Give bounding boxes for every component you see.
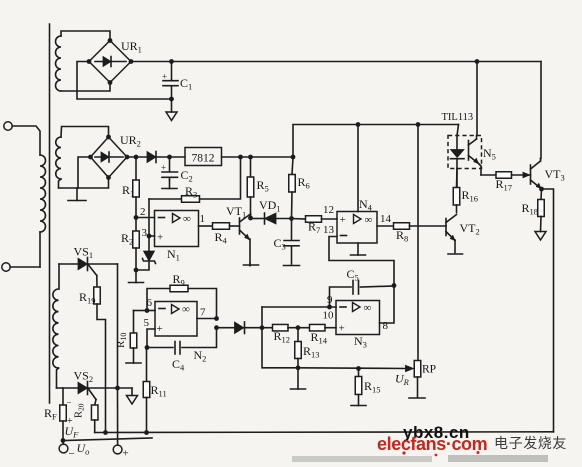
svg-text:UR2: UR2 bbox=[120, 133, 141, 149]
wire R19 to bottom rail bbox=[97, 304, 106, 433]
svg-text:RP: RP bbox=[422, 364, 436, 376]
wire N4 out bbox=[377, 225, 394, 227]
svg-text:R18: R18 bbox=[522, 201, 539, 217]
svg-text:R6: R6 bbox=[298, 175, 310, 191]
svg-text:N5: N5 bbox=[483, 146, 496, 162]
wire N1 out to R4 bbox=[199, 225, 213, 227]
svg-text:3: 3 bbox=[142, 227, 148, 239]
wire UR1 minus output bbox=[77, 62, 172, 100]
svg-text:N3: N3 bbox=[354, 334, 367, 350]
node VD1 R7 C3 bbox=[289, 216, 294, 221]
resistor R8 bbox=[394, 223, 410, 230]
svg-text:8: 8 bbox=[383, 320, 389, 332]
svg-text:C5: C5 bbox=[347, 267, 359, 283]
ground below VT1 bbox=[249, 264, 251, 266]
wire emitter to R17 bbox=[481, 174, 496, 176]
node R1 top bbox=[134, 155, 139, 160]
svg-text:R13: R13 bbox=[303, 344, 320, 360]
input terminal 2 bbox=[2, 263, 10, 271]
capacitor C5 bbox=[352, 281, 354, 295]
svg-text:+: + bbox=[339, 323, 345, 335]
winding W1 bottom wire bbox=[61, 83, 110, 92]
diode VD1 (cathode left) bbox=[251, 218, 264, 220]
wire R7 to N4 pin12 bbox=[322, 218, 338, 220]
svg-text:R9: R9 bbox=[173, 272, 185, 288]
svg-text:VD1: VD1 bbox=[259, 198, 281, 214]
wire VS2 node to plus terminal bbox=[117, 388, 119, 445]
svg-text:14: 14 bbox=[380, 213, 392, 225]
ground below R2 bbox=[135, 270, 137, 283]
ground below VT2 bbox=[448, 253, 463, 255]
wire C4 row right bbox=[182, 328, 217, 348]
resistor RF sense bbox=[62, 388, 64, 405]
svg-text:R2: R2 bbox=[121, 231, 133, 247]
ground below R15 bbox=[358, 395, 360, 406]
optocoupler phototransistor bbox=[468, 141, 470, 161]
resistor R18 bbox=[540, 189, 543, 200]
svg-text:R17: R17 bbox=[496, 177, 513, 193]
svg-text:VT2: VT2 bbox=[460, 221, 480, 237]
ground below UR2 bbox=[76, 188, 78, 201]
watermark red speckles bbox=[402, 451, 405, 454]
svg-text:R4: R4 bbox=[215, 230, 228, 246]
svg-text:TIL113: TIL113 bbox=[442, 112, 474, 123]
transistor VT3 bbox=[530, 165, 532, 184]
ground below N4 bbox=[357, 243, 359, 255]
node output minus bbox=[61, 438, 66, 443]
node RP rail bbox=[416, 122, 421, 127]
node R5 top bbox=[248, 155, 253, 160]
svg-text:∞: ∞ bbox=[364, 302, 372, 314]
wire C5 right leg bbox=[361, 286, 395, 287]
node C5 N3out pin13 bbox=[392, 283, 397, 288]
output terminal plus bbox=[113, 445, 122, 454]
bottom rail bbox=[95, 431, 554, 434]
wire VS1 down to VS2 node bbox=[117, 264, 119, 388]
ground below C1 bbox=[166, 112, 177, 121]
transistor VT1 bbox=[239, 218, 241, 234]
node R15 top bbox=[356, 366, 361, 371]
svg-text:12: 12 bbox=[323, 204, 334, 216]
svg-text:5: 5 bbox=[144, 317, 150, 329]
node R19 rail bbox=[103, 430, 108, 435]
bridge rectifier UR1 bbox=[89, 41, 131, 83]
svg-text:∞: ∞ bbox=[183, 213, 191, 225]
svg-text:UR1: UR1 bbox=[121, 39, 142, 55]
wire N2 out bbox=[197, 318, 217, 320]
svg-text:R11: R11 bbox=[151, 383, 167, 399]
svg-text:RF: RF bbox=[44, 406, 57, 422]
svg-text:N1: N1 bbox=[167, 247, 180, 263]
svg-text:13: 13 bbox=[323, 224, 335, 236]
wire rail into optocoupler bbox=[457, 125, 459, 136]
capacitor C1 bbox=[163, 80, 178, 82]
wire R8 to VT2 base bbox=[410, 225, 447, 227]
winding W3 (feedback) bbox=[53, 289, 59, 368]
bridge rectifier UR2 bbox=[91, 137, 128, 178]
resistor R12 bbox=[273, 324, 289, 331]
node C4 left bbox=[145, 345, 150, 350]
svg-text:∞: ∞ bbox=[365, 214, 373, 226]
wire R3 left down to pin3 bbox=[148, 199, 150, 236]
svg-text:+: + bbox=[340, 214, 346, 226]
wire C5 left leg bbox=[330, 287, 352, 307]
capacitor C2 bbox=[162, 171, 178, 173]
wire diode node branch down bbox=[262, 328, 298, 368]
svg-text:+: + bbox=[123, 448, 129, 460]
node R11 rail bbox=[144, 430, 149, 435]
resistor R20 bbox=[95, 400, 96, 406]
zener diode VZ bbox=[148, 236, 150, 251]
transformer core bbox=[49, 24, 51, 403]
svg-text:10: 10 bbox=[323, 310, 335, 322]
winding W2 bottom leg bbox=[59, 179, 62, 188]
resistor R11 bbox=[146, 348, 148, 382]
svg-text:+: + bbox=[157, 232, 163, 244]
node pin3 bbox=[147, 234, 152, 239]
svg-text:N4: N4 bbox=[359, 197, 373, 213]
potentiometer RP bbox=[414, 361, 421, 378]
wire UR row bbox=[298, 367, 406, 370]
wire N4 pin13 loop bbox=[329, 237, 394, 286]
ground below RP bbox=[409, 397, 425, 399]
svg-text:R3: R3 bbox=[185, 184, 197, 200]
wire pin5 bbox=[147, 329, 155, 348]
node VT1 collector bbox=[248, 216, 253, 221]
resistor R7 bbox=[306, 216, 322, 223]
svg-text:R8: R8 bbox=[396, 228, 408, 244]
wire to R7 bbox=[292, 218, 306, 221]
optocoupler LED bbox=[456, 136, 458, 150]
ground below C2 bbox=[169, 180, 171, 189]
wiper arrow into RP bbox=[406, 365, 414, 371]
node C1 bottom bbox=[169, 97, 174, 102]
node N4 supply bbox=[356, 122, 361, 127]
wire C1 ground stem bbox=[171, 99, 173, 112]
wire R18 ground stem bbox=[540, 217, 543, 232]
wire diode node up bbox=[261, 307, 263, 328]
svg-text:R15: R15 bbox=[364, 379, 381, 395]
op-amp N2 bbox=[155, 302, 197, 337]
resistor R15 bbox=[358, 369, 360, 377]
resistor R19 bbox=[96, 276, 98, 288]
resistor R10 bbox=[133, 311, 135, 334]
wire UR2 bottom wire bbox=[59, 178, 109, 189]
node diode out bbox=[260, 325, 265, 330]
transistor VT2 bbox=[445, 219, 447, 236]
svg-text:∞: ∞ bbox=[182, 304, 190, 316]
svg-text:UR: UR bbox=[395, 372, 410, 388]
svg-text:−: − bbox=[69, 448, 75, 460]
wire VS1 left to winding W3 bbox=[58, 264, 60, 289]
svg-text:VS1: VS1 bbox=[74, 245, 94, 261]
wire top rail to optocoupler collector bbox=[476, 62, 478, 136]
wire 7812 output bbox=[222, 156, 294, 158]
resistor R4 bbox=[213, 223, 230, 230]
wire top rail bbox=[131, 61, 541, 63]
wire pin6 to N2 bbox=[147, 310, 155, 312]
wire R17 to VT3 base bbox=[512, 174, 531, 176]
wire top rail corner to VT3 bbox=[540, 62, 543, 159]
wire R13 bottom bbox=[297, 359, 299, 368]
capacitor C3 bbox=[291, 219, 293, 240]
op-amp N3 bbox=[336, 301, 380, 335]
ground arrow right of VS2 bbox=[131, 388, 133, 396]
wire to diode VD2 bbox=[217, 327, 235, 329]
wire C4 row left bbox=[147, 347, 173, 349]
wire N4 supply drop bbox=[357, 125, 359, 212]
wire C1 stem bbox=[171, 62, 173, 81]
ground below R18 bbox=[535, 232, 546, 241]
resistor R17 bbox=[496, 172, 512, 179]
diode VD2 bbox=[235, 322, 244, 334]
node pin9 bbox=[327, 305, 332, 310]
thyristor VS1 bbox=[59, 263, 78, 265]
node diode row bbox=[214, 325, 219, 330]
node VT3 emitter bbox=[539, 187, 544, 192]
svg-text:1: 1 bbox=[200, 213, 206, 225]
svg-text:R14: R14 bbox=[311, 330, 328, 346]
svg-text:elecfans·com: elecfans·com bbox=[377, 434, 487, 454]
node rail corner bbox=[291, 155, 296, 160]
resistor R16 bbox=[456, 169, 459, 188]
wire R12 to node bbox=[288, 327, 298, 329]
node R13 top bbox=[296, 325, 301, 330]
resistor R5 bbox=[250, 157, 252, 177]
wire pin3 to N1 bbox=[149, 235, 155, 237]
svg-text:UF: UF bbox=[65, 424, 80, 440]
wire RF to minus terminal bbox=[62, 421, 64, 441]
input terminal 1 bbox=[4, 122, 12, 130]
svg-text:+: + bbox=[162, 72, 167, 82]
svg-text:VT1: VT1 bbox=[226, 204, 246, 220]
diode VD after UR2 bbox=[147, 152, 156, 163]
svg-text:N2: N2 bbox=[194, 348, 207, 364]
node N2 out bbox=[214, 316, 219, 321]
svg-text:Uo: Uo bbox=[77, 441, 90, 457]
wire pin6 to R10 bbox=[134, 310, 148, 312]
capacitor C4 bbox=[174, 342, 176, 355]
wire R9 right to output node bbox=[188, 289, 217, 319]
svg-text:+: + bbox=[157, 323, 163, 335]
svg-text:C4: C4 bbox=[172, 357, 185, 373]
transformer primary winding bbox=[40, 155, 46, 232]
wire emitter to right bus bbox=[542, 189, 554, 432]
svg-text:VT3: VT3 bbox=[545, 167, 565, 183]
wire R20 to bottom rail bbox=[94, 420, 96, 433]
resistor R3 bbox=[149, 198, 182, 200]
wire pin10 row bbox=[262, 306, 336, 308]
wire mid rail bbox=[293, 125, 459, 158]
node C1 top rail bbox=[169, 59, 174, 64]
resistor R1 bbox=[135, 157, 137, 180]
ground below R13 bbox=[297, 368, 299, 389]
node R3 branch bbox=[238, 155, 243, 160]
node C2 top bbox=[167, 155, 172, 160]
resistor R6 bbox=[292, 157, 293, 175]
wire N3 output bbox=[380, 286, 395, 324]
wire R1 to node2 bbox=[135, 197, 137, 218]
svg-text:R5: R5 bbox=[257, 178, 269, 194]
op-amp N1 bbox=[155, 211, 199, 247]
winding W1 (UR1 secondary) bbox=[56, 36, 62, 91]
svg-text:VS2: VS2 bbox=[74, 369, 94, 385]
resistor R2 bbox=[135, 218, 137, 232]
thyristor VS2 bbox=[57, 387, 79, 389]
node R13 ground row bbox=[296, 365, 301, 370]
svg-text:7812: 7812 bbox=[192, 153, 215, 165]
resistor R14 bbox=[298, 327, 310, 329]
svg-text:C1: C1 bbox=[180, 76, 192, 92]
wire UR2 minus leg bbox=[78, 157, 91, 188]
winding W1 top wire bbox=[61, 31, 110, 40]
wire primary bottom to terminal2 bbox=[39, 232, 41, 267]
svg-text:R16: R16 bbox=[462, 188, 479, 204]
wire terminal1 to primary bbox=[12, 126, 40, 155]
wire pin2 to N1 bbox=[136, 217, 155, 219]
svg-text:R20: R20 bbox=[74, 403, 86, 418]
bottom gray band bbox=[292, 456, 432, 462]
node zener join bbox=[134, 268, 139, 273]
resistor R9 bbox=[170, 285, 188, 292]
node pin6 bbox=[145, 308, 150, 313]
wire terminal2 bbox=[10, 266, 40, 268]
regulator 7812 bbox=[185, 148, 222, 166]
op-amp N4 bbox=[337, 212, 377, 244]
winding W2 top wire bbox=[61, 127, 109, 138]
feedback wire R9 loop bbox=[147, 289, 170, 311]
wire R16 to VT2 collector bbox=[456, 205, 458, 213]
wire to R12 bbox=[262, 327, 273, 329]
output minus rail bbox=[63, 438, 152, 441]
wire UR2 plus to 7812 bbox=[127, 156, 185, 158]
node pin2 bbox=[134, 215, 139, 220]
svg-text:7: 7 bbox=[200, 307, 206, 319]
optocoupler N5 dashed box bbox=[448, 136, 482, 169]
node VS2 plus line bbox=[115, 386, 120, 391]
svg-text:C3: C3 bbox=[274, 236, 286, 252]
wire C2 stem bbox=[169, 157, 171, 171]
wire R4 to VT1 base bbox=[230, 225, 240, 227]
ground below C3 bbox=[284, 265, 300, 267]
wire R2 bottom bbox=[135, 248, 137, 270]
wire W3 bottom bbox=[57, 368, 59, 388]
winding W2 (UR2 secondary) bbox=[56, 137, 61, 179]
svg-text:2: 2 bbox=[140, 206, 146, 218]
output terminal minus bbox=[59, 444, 68, 453]
svg-text:C2: C2 bbox=[181, 168, 193, 184]
wire RP bottom bbox=[417, 377, 419, 397]
svg-text:电子发烧友: 电子发烧友 bbox=[494, 435, 567, 451]
svg-text:−: − bbox=[67, 398, 72, 408]
wire rail to RP bbox=[417, 125, 419, 361]
ground below R10 bbox=[133, 348, 135, 363]
svg-text:+: + bbox=[161, 163, 166, 173]
resistor R13 bbox=[297, 328, 299, 342]
